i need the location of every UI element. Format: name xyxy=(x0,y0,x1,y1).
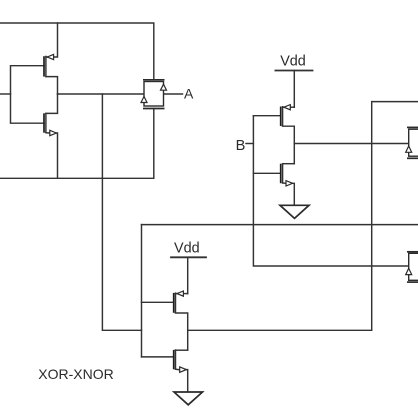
svg-text:A: A xyxy=(184,86,194,102)
svg-text:Vdd: Vdd xyxy=(174,241,200,257)
svg-text:B: B xyxy=(236,138,246,154)
svg-text:XOR-XNOR: XOR-XNOR xyxy=(38,366,113,382)
svg-text:Vdd: Vdd xyxy=(280,53,306,69)
